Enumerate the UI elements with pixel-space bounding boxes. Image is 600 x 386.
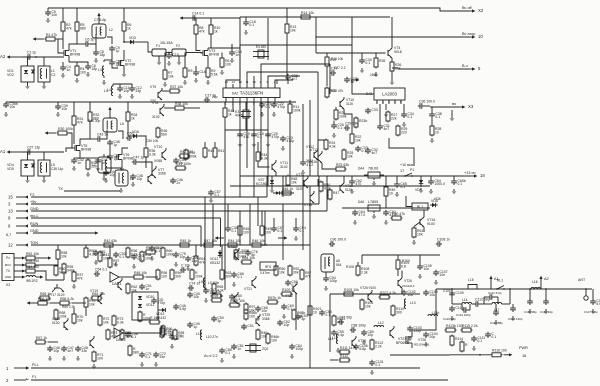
wire l7 t [103,154,105,157]
svg-text:R109: R109 [402,259,410,263]
svg-text:160k: 160k [370,73,377,77]
svg-text:Вч off: Вч off [462,6,473,10]
svg-text:GND: GND [30,207,39,211]
ground C8 [94,58,99,63]
svg-text:R115 2.2k: R115 2.2k [462,324,478,328]
capacitor C62 [149,246,162,253]
wire vt26a dn [401,288,403,294]
svg-text:10k: 10k [355,139,361,143]
wire vs7 dn [271,183,273,188]
svg-text:3129: 3129 [296,187,303,191]
svg-text:L15: L15 [468,278,474,282]
arrow left R66 [27,301,38,304]
svg-text:554: 554 [336,263,342,267]
wire r58 dn [57,261,59,263]
svg-text:0.1: 0.1 [237,275,242,279]
wire c113 stub [495,304,497,312]
svg-text:L14: L14 [462,298,468,302]
resistor R35 [374,57,385,69]
capacitor C89 [361,330,374,337]
wire bus F2 [31,196,267,198]
label R19 10k [331,57,343,61]
capacitor C87 [338,315,352,324]
wire audio vert3 [221,245,223,269]
svg-text:L10 27n: L10 27n [206,335,218,339]
node n1 [35,56,37,58]
svg-text:18p: 18p [99,53,105,57]
ground C117 [591,309,596,314]
resistor R37 [72,271,83,283]
svg-text:C87 50p: C87 50p [339,315,352,319]
capacitor C111 [471,336,485,343]
wire la pin wires dn [379,104,381,124]
wire pwr wire [450,354,491,356]
wire vert 296 dn [295,294,297,330]
svg-text:R47 10k: R47 10k [204,239,217,243]
wire diode row y193 [273,192,294,194]
wire c16b up [231,44,233,50]
svg-text:L7: L7 [92,163,96,167]
IC DA3 LA2003 [366,88,405,100]
svg-text:100p: 100p [295,347,303,351]
capacitor C81 [231,344,244,351]
diode VD8 [430,199,438,207]
svg-text:4.3k: 4.3k [261,157,268,161]
svg-text:R116 100: R116 100 [492,349,507,353]
capacitor C112 [474,297,490,306]
wire X3 gnd stub [451,110,453,116]
svg-text:TX: TX [58,187,63,191]
transistor VT21 [244,276,256,291]
wire vert bus c [249,204,251,245]
node chain j4 [545,288,547,290]
svg-text:5.4p: 5.4p [337,333,344,337]
capacitor C25 [265,132,279,139]
wire vt5 s [79,153,81,158]
svg-text:R107 4.3k: R107 4.3k [380,291,396,295]
resistor R68 [54,309,67,321]
svg-text:C33: C33 [371,108,377,112]
capacitor C50 [211,316,224,323]
svg-text:6.8: 6.8 [401,265,406,269]
ground C114 [511,316,516,321]
resistor R [460,341,468,353]
wire audio bus [86,244,276,246]
terminal 12 TON [8,241,38,247]
svg-text:R37 10k: R37 10k [170,85,183,89]
ground VD45 [25,178,30,183]
svg-text:R64 10k: R64 10k [242,256,255,260]
pin 11 top [246,80,249,88]
svg-text:R114: R114 [455,337,463,341]
wire vd3 out [136,41,148,43]
svg-text:10p: 10p [53,349,59,353]
resistor R57 [108,257,119,269]
svg-text:680: 680 [80,27,86,31]
wire vert 318 [317,72,319,176]
ground C105 [418,274,423,279]
diode VD10 [138,295,155,299]
svg-text:100k: 100k [195,275,203,279]
capacitor C53 [295,314,308,321]
svg-text:C111 5.6p: C111 5.6p [488,291,502,295]
ground C52 [114,262,119,267]
label Ач d 2.2 [204,354,218,358]
resistor R73 [112,315,124,327]
svg-text:20p: 20p [429,335,435,339]
label L9 [208,281,220,285]
svg-text:0.1: 0.1 [491,335,496,339]
svg-text:100k: 100k [339,115,347,119]
wire tank2 top [109,114,111,118]
resistor R40 [203,147,214,159]
ground L1 [42,84,47,89]
svg-text:47k: 47k [199,261,205,265]
resistor R68 [59,297,75,305]
wire c6 stub [77,62,88,64]
crystal ZQ [245,344,269,352]
svg-text:BF998: BF998 [209,53,219,57]
wire mid vert x310 [309,186,311,330]
inductor L15 [462,278,477,289]
pin 12 top [239,80,243,88]
resistor R30 [54,265,67,277]
ground C89 [362,340,367,345]
svg-text:R47: R47 [333,191,339,195]
wire vert x290 [289,100,291,104]
svg-text:1p: 1p [115,49,119,53]
wire r66 out [50,302,61,304]
resistor R47 [175,162,192,170]
wire bus y208 [342,207,430,209]
capacitor C33 [365,108,378,114]
wire l8 top [106,168,121,170]
capacitor C65b [451,179,466,186]
svg-text:1n: 1n [237,347,241,351]
svg-text:9100: 9100 [427,222,435,226]
switch P1 [404,168,414,177]
wire l3 stub [104,59,112,61]
IC DA6 L7805 [358,200,384,213]
pin 6 bottom [260,98,262,106]
svg-text:1n: 1n [77,161,81,165]
wire r11 dn [289,114,291,177]
svg-text:L13: L13 [410,301,416,305]
resistor R70 [84,297,95,309]
svg-text:10n: 10n [261,309,267,313]
arrow C14 [180,16,191,19]
wire r36 dn2 [145,159,147,169]
wire r9b [207,62,209,67]
capacitor C61 [139,284,152,291]
wire vd down [27,82,29,84]
svg-text:47k: 47k [199,30,205,34]
svg-text:C116 10p: C116 10p [540,310,553,314]
wire vt4 base rail [316,52,386,54]
svg-text:20p: 20p [212,95,218,99]
wire pa wire mid [400,293,420,295]
svg-text:10: 10 [313,311,317,315]
wire vt3 out [211,47,232,49]
ground C36b [4,112,9,117]
wire c15 up [168,53,170,56]
wire r32 up [89,102,91,111]
wire vt6 d [122,148,128,152]
wire c28 dn [287,80,289,84]
resistor R6 [122,21,132,33]
resistor R6 [220,57,231,69]
wire vt11 dn [272,172,276,180]
svg-text:3/20: 3/20 [150,99,156,103]
capacitor C103 [407,326,422,333]
wire vd stub [27,57,29,66]
resistor R [190,269,203,281]
wire audio vert4 [282,245,284,260]
svg-text:R 10k: R 10k [150,316,159,320]
wire c36-c38 [431,107,433,112]
svg-text:VD5: VD5 [7,167,14,171]
filter F2 [172,44,186,56]
ground R71 [92,364,97,369]
svg-text:10n: 10n [51,13,57,17]
resistor R37 [169,85,184,93]
svg-text:100: 100 [249,315,255,319]
terminal 1 PLL [6,363,39,371]
resistor R41 [213,147,224,159]
inductor L14b [428,311,439,316]
ground C103 [408,336,413,341]
resistor R42 [179,150,194,158]
label L4 [104,89,108,93]
svg-text:PLL: PLL [32,363,39,367]
svg-text:C112 68p: C112 68p [475,297,490,301]
wire rail2 [58,101,296,103]
capacitor C54 [319,310,332,317]
svg-text:470: 470 [243,135,249,139]
svg-text:0.1: 0.1 [407,115,412,119]
capacitor C111 bridge [484,291,502,304]
label TX [58,187,63,191]
svg-text:18p: 18p [91,67,97,71]
label C115 [524,310,537,314]
svg-text:+10 вых: +10 вых [400,163,414,167]
svg-text:100: 100 [243,231,249,235]
wire vt3 d [208,47,211,49]
wire row2 b [472,303,476,305]
transistor VT24b [234,292,238,304]
svg-text:100: 100 [80,71,86,75]
svg-text:R38 10k: R38 10k [175,102,188,106]
svg-text:10k: 10k [395,67,401,71]
capacitor C36b [3,102,18,109]
ground C80 [220,358,225,363]
LC tank L6 [103,118,124,132]
resistor R8 [194,24,205,36]
wire mid verticals b [214,142,216,147]
wire r52 out [37,257,45,259]
svg-text:3102: 3102 [152,115,160,119]
transistor VT23 [118,278,122,290]
arrow up tank2 [108,107,111,114]
ground C72 [154,362,159,367]
transistor VT8 [152,101,164,119]
resistor R46 [281,187,294,195]
resistor R9 [183,67,193,79]
svg-text:0100: 0100 [52,321,60,325]
capacitor C51 [241,324,254,330]
capacitor C48 [75,346,88,353]
svg-text:17: 17 [400,169,404,173]
svg-text:1k: 1k [214,30,218,34]
svg-text:A1: A1 [0,149,6,154]
wire rect loop [389,138,414,166]
resistor R38 [174,102,189,110]
svg-text:10k: 10k [61,255,67,259]
svg-text:LA2003: LA2003 [382,92,397,97]
wire c26 up [333,121,335,124]
wire opamp out [119,276,134,278]
label L13 [410,301,416,305]
transistor VT22 [90,336,94,348]
ground C30 [360,68,365,73]
wire to tank2 [102,130,107,139]
wire f2 dn [178,56,180,60]
resistor R32 [88,111,99,123]
ground C5 [46,18,51,23]
capacitor C56 [185,256,198,263]
ground R6b [220,70,225,75]
wire vt1 g2 [58,39,62,53]
crystal E3 [235,110,251,118]
ground C22 [272,112,277,117]
MOSFET transistor VT3 [201,48,220,58]
resistor R101 [308,305,321,317]
svg-text:3p: 3p [217,319,221,323]
capacitor C104 [423,332,438,339]
transistor VT24 [352,336,366,348]
svg-text:C108 1n: C108 1n [437,237,450,241]
terminal R1 arrow [33,37,44,40]
svg-text:R23b: R23b [359,119,367,123]
ground C44 [104,178,109,183]
node chain j3 [529,288,531,290]
svg-text:30k: 30k [293,271,299,275]
wire l5 stub [43,152,45,160]
wire up from vt3 [231,44,233,48]
svg-text:X058: X058 [241,249,249,253]
diode VS7 [256,178,274,186]
wire vt5 d [80,139,90,143]
MOSFET transistor VT5 [73,143,92,153]
label L11 [328,337,333,341]
diode VD3 [128,36,136,44]
resistor R100 [281,288,296,296]
wire vert x268 [267,18,269,60]
resistor R68b [292,309,305,321]
resistor R51 [412,227,423,239]
label C40 [88,119,100,123]
resistor R63 [220,269,231,281]
resistor R [138,311,151,323]
wire pwr wire2 [504,354,510,356]
capacitor C16 [229,50,242,57]
capacitor C6 [84,37,95,46]
svg-text:C7 5-6p: C7 5-6p [94,18,106,22]
wire l5 dn [43,176,45,178]
capacitor C72 [153,352,166,359]
transistor VT25 [256,313,270,326]
resistor R21 [334,109,347,121]
svg-text:Вч атор: Вч атор [462,32,475,36]
svg-text:5.6p: 5.6p [179,307,186,311]
capacitor C [180,263,191,272]
wire r31 dn [73,127,75,145]
connector X1 [2,254,14,288]
capacitor [510,306,516,312]
ground C65c [452,189,457,194]
svg-text:RL1: RL1 [417,205,423,209]
label L17 [494,308,500,312]
terminal A2 [539,276,548,289]
ground C69 [282,314,287,319]
resistor R112 [339,354,351,362]
ground X3 [450,116,455,121]
ground R9 [183,80,188,85]
wire c9 down [111,52,113,60]
ground C21 [260,112,265,117]
capacitor C19 [237,132,250,139]
svg-text:L9: L9 [199,280,203,284]
transistor VT20 [228,245,249,260]
capacitor [493,310,499,316]
wire vt1 src [68,58,70,62]
capacitor C107 [433,270,448,277]
wire vd6 in [128,135,131,137]
wire rl1 left [406,196,412,207]
terminal A2 [0,54,22,59]
svg-text:270p: 270p [157,301,165,305]
label 17 [400,169,404,173]
label L10 27n [206,335,218,339]
wire vt1 drain [69,44,77,48]
svg-text:A2: A2 [544,277,549,281]
diode VD9b [273,191,279,195]
svg-text:10p: 10p [136,177,142,181]
wire vt2 drain [123,50,125,58]
wire r109 dn [397,271,399,277]
resistor R20 [325,87,336,99]
inductor L11 [332,334,338,344]
label R20 47k [331,89,343,93]
wire c36b up [5,101,7,103]
svg-text:L10: L10 [196,332,202,336]
capacitor C51 [93,250,106,257]
svg-text:10k: 10k [193,295,199,299]
svg-text:+5v: +5v [30,200,36,204]
wire pa block top [362,254,440,256]
wire ic pin drops3 [260,102,262,105]
svg-text:4.3k: 4.3k [217,289,224,293]
resistor R27 [386,111,397,123]
terminal 13 GND [8,207,39,213]
svg-text:5.6p: 5.6p [596,302,600,306]
svg-text:VT9: VT9 [150,85,156,89]
ground C75 [174,262,179,267]
wire r54 out [37,271,65,280]
capacitor C108 [436,237,450,246]
capacitor C117 [590,299,600,306]
resistor R46b [266,333,279,345]
